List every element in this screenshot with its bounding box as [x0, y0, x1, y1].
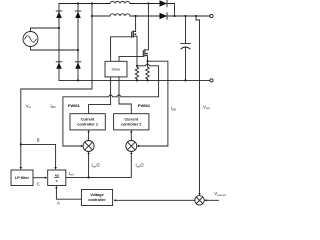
svg-text:B: B — [37, 138, 40, 143]
svg-text:controller 1: controller 1 — [77, 122, 98, 126]
wire bridge left leg — [58, 4, 60, 81]
svg-text:controller: controller — [88, 198, 106, 202]
resistor R1 (sense 1) — [135, 66, 138, 81]
wire Vout sense down right side — [196, 16, 200, 193]
node Q2 drain tap — [147, 2, 149, 4]
arrow Iref/2 into M2 — [130, 152, 132, 154]
current controller 2 box — [114, 114, 149, 130]
wire PWM2 from driver to controller 2 — [119, 77, 131, 114]
wire D5 cathode down to output rail — [167, 4, 175, 17]
diode bridge D4 (bottom right) — [75, 62, 81, 69]
arrow IM2 into multiplier 2 — [137, 145, 139, 147]
node B split — [20, 143, 22, 145]
wire Iref from divider — [66, 154, 132, 177]
divider box AB/C — [48, 170, 66, 186]
wire IM1 sense with hops — [63, 64, 159, 146]
node rail-right-leg junction — [77, 2, 79, 4]
svg-text:LP filter: LP filter — [15, 176, 30, 180]
svg-text:Current: Current — [81, 118, 95, 122]
driver U1 — [105, 61, 127, 77]
current controller 1 box — [70, 114, 105, 130]
arrow Iref/2 into M1 — [87, 152, 89, 154]
diode bridge D1 (top left) — [56, 11, 62, 18]
LP filter box — [11, 170, 33, 186]
wire AC top to bridge — [31, 28, 60, 32]
wire output positive rail — [167, 15, 210, 17]
svg-text:Vin: Vin — [26, 103, 31, 109]
wire Vin sense vertical and horizontal to left — [21, 4, 92, 168]
terminal output minus — [210, 79, 213, 82]
node R2 top — [146, 60, 148, 62]
svg-text:C: C — [37, 181, 40, 186]
wire bridge right leg — [77, 4, 79, 81]
wire Vref into summer — [207, 199, 219, 201]
arrow B into divider — [54, 167, 56, 170]
wire Q2 gate — [119, 57, 143, 62]
svg-text:controller 2: controller 2 — [121, 122, 142, 126]
resistor R2 (sense 2) — [146, 61, 149, 80]
wire L1 to D1 — [130, 3, 160, 5]
transistor Q1 (upper MOSFET) — [132, 16, 137, 66]
arrow IM1 into multiplier 1 — [81, 145, 83, 147]
node Iref split — [88, 176, 90, 178]
node branch2 tap — [91, 15, 93, 17]
svg-text:AB: AB — [54, 174, 59, 178]
node rail right leg — [77, 79, 79, 81]
arrow Vout into summer top — [198, 193, 200, 195]
wire top rail — [59, 3, 110, 5]
svg-text:Iref/2: Iref/2 — [92, 163, 101, 169]
svg-text:Iref/2: Iref/2 — [136, 163, 145, 169]
inductor L2 — [110, 14, 130, 16]
node Vin tap on top rail — [91, 2, 93, 4]
svg-text:IM1: IM1 — [51, 103, 57, 109]
wire L2 to D2 — [130, 15, 160, 17]
node AC top junction — [58, 27, 60, 29]
capacitor C1 — [181, 16, 191, 80]
wire IM2 sense — [139, 61, 168, 146]
wire branch2 start — [92, 15, 110, 17]
multiplier M2 — [126, 141, 137, 152]
wire LP filter to divider — [33, 177, 45, 179]
node capacitor top junction — [184, 15, 186, 17]
terminal output plus — [210, 14, 213, 17]
node D5 branch junction — [173, 15, 175, 17]
svg-text:PWM1: PWM1 — [68, 103, 81, 108]
arrow A into divider bottom — [55, 186, 57, 188]
transistor Q2 (lower MOSFET) — [143, 4, 148, 62]
wire bottom rail — [59, 79, 210, 81]
wire A from voltage controller to divider — [56, 188, 81, 199]
summer S1 (output voltage error) — [195, 196, 204, 205]
wire M1 output to controller 1 — [88, 132, 90, 140]
svg-text:A: A — [57, 200, 60, 205]
diode bridge D3 (bottom left) — [56, 62, 62, 69]
node AC bottom junction — [77, 49, 79, 51]
AC source V1 — [23, 32, 38, 47]
wire AC bottom to bridge — [31, 47, 79, 51]
arrow Vin into LP filter — [20, 167, 22, 170]
node R1 bottom — [136, 79, 138, 81]
arrow into voltage controller right — [114, 199, 116, 201]
wire M2 output to controller 2 — [130, 132, 132, 140]
diode D5 (boost diode 1) — [160, 0, 168, 7]
svg-text:Iref: Iref — [69, 171, 74, 177]
wire PWM1 from driver to controller 1 — [89, 77, 111, 114]
svg-text:Driver: Driver — [112, 67, 122, 71]
diode bridge D2 (top right) — [75, 11, 81, 18]
diode D6 (boost diode 2) — [160, 13, 168, 20]
node capacitor bottom junction — [184, 79, 186, 81]
svg-text:IM2: IM2 — [171, 106, 177, 112]
wire Q1 gate — [111, 37, 132, 62]
node Vout sense tap — [195, 15, 197, 17]
wire summer to voltage controller — [116, 199, 195, 201]
multiplier M1 — [83, 141, 94, 152]
svg-text:PWM2: PWM2 — [138, 103, 151, 108]
svg-text:Voltage: Voltage — [90, 193, 103, 197]
svg-text:Vout: Vout — [203, 104, 210, 110]
voltage controller box — [81, 190, 112, 206]
wire B branch to divider top — [21, 144, 56, 167]
svg-text:Current: Current — [124, 118, 138, 122]
node R2 bottom — [146, 79, 148, 81]
inductor L1 — [110, 1, 130, 3]
arrow Vref into summer right — [204, 199, 206, 201]
svg-text:Vout,ref: Vout,ref — [214, 191, 225, 197]
node Q1 drain tap — [135, 15, 137, 17]
wire Iref riser 1 — [88, 154, 90, 177]
node R1 top — [136, 65, 138, 67]
arrow C into divider — [45, 177, 47, 179]
